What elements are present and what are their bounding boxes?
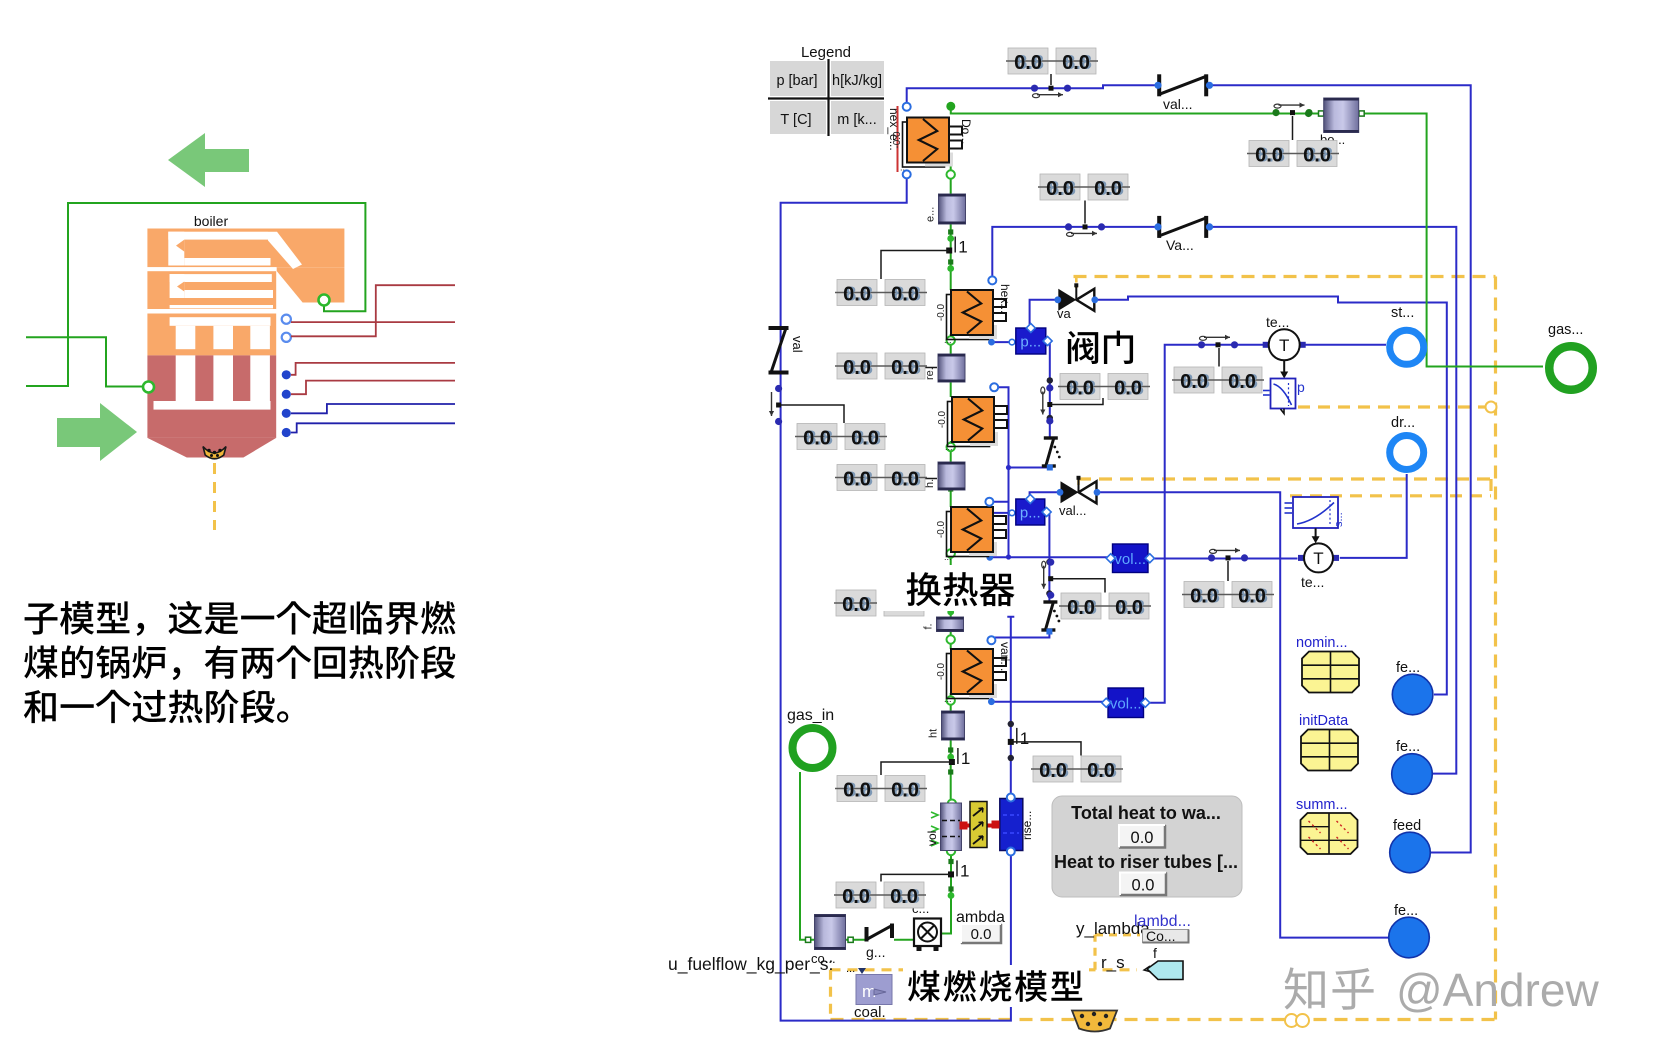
svg-text:T: T (1313, 549, 1323, 568)
svg-text:0.0: 0.0 (891, 780, 919, 802)
svg-text:g...: g... (866, 944, 885, 960)
svg-text:0.0: 0.0 (971, 926, 992, 943)
svg-text:0.0: 0.0 (1087, 760, 1115, 782)
label fe1 (1396, 660, 1420, 676)
display d1 (1006, 48, 1098, 74)
svg-text:s...: s... (1333, 512, 1345, 527)
label r_s (1101, 953, 1125, 972)
chinese description paragraph (24, 601, 456, 723)
heat transfer block yellow (970, 802, 987, 848)
label val1 (1163, 96, 1193, 112)
wire hex1 top to valve val1 to port feed (907, 85, 1471, 852)
svg-text:1: 1 (961, 749, 970, 768)
gain block k4 (1008, 728, 1029, 748)
svg-text:0.0: 0.0 (1228, 371, 1256, 393)
svg-text:Do...: Do... (959, 119, 973, 144)
wire hex3 top down to hex4 row (994, 387, 1008, 557)
port dr drain (1390, 436, 1424, 470)
switch te1 (1198, 335, 1238, 349)
svg-text:p...: p... (1020, 334, 1041, 351)
boiler icon (147, 229, 344, 458)
boat icon yellow (1072, 1011, 1117, 1032)
svg-text:1: 1 (960, 861, 969, 880)
svg-text:u_fuelflow_kg_per_s:: u_fuelflow_kg_per_s: (668, 954, 833, 975)
svg-text:st...: st... (1391, 305, 1414, 321)
svg-text:-0.0: -0.0 (937, 410, 948, 428)
bus node yellow double circle bottom (1285, 1014, 1309, 1027)
node blue boiler port 2 (282, 390, 291, 399)
wire red port 1 (291, 363, 455, 375)
wire p2 right down through valve to hex5 (993, 513, 1050, 641)
switch zz2 (1041, 559, 1054, 599)
node blue boiler port 4 (282, 428, 291, 437)
svg-text:0.0: 0.0 (1062, 52, 1090, 74)
label vari rotated (998, 642, 1012, 671)
wire p2 top to valve val4 to port fe4 (1030, 492, 1388, 937)
wire yellow dashed ash outlet (213, 463, 216, 530)
svg-text:Heat to riser tubes [...: Heat to riser tubes [... (1054, 852, 1238, 872)
valve va spray (1054, 283, 1098, 311)
vessel co (815, 915, 846, 950)
label coal combustion chinese (903, 965, 1089, 1007)
source block coal (846, 963, 892, 1021)
display left vol (835, 776, 927, 802)
wire riser top vertical (1007, 617, 1014, 795)
port hex1 bottom-left (903, 170, 911, 178)
svg-text:Total heat to wa...: Total heat to wa... (1071, 803, 1221, 823)
valve valve zz1 (1042, 438, 1061, 466)
svg-text:p: p (1297, 379, 1305, 395)
gain block k2 (949, 748, 970, 768)
label y_lambda (1076, 919, 1150, 938)
svg-text:0.0: 0.0 (1039, 760, 1067, 782)
label fe4 (1394, 903, 1418, 919)
heat exchanger hex4 (936, 507, 1006, 562)
svg-text:0.0: 0.0 (1238, 586, 1266, 608)
label Do rotated (959, 119, 973, 144)
heat coupling red (960, 821, 1000, 830)
display d2 bo (1247, 141, 1339, 167)
svg-text:m [k...: m [k... (837, 112, 876, 128)
gain block k3 (948, 860, 969, 880)
svg-text:rise...: rise... (1020, 811, 1034, 840)
parameter table summary (1301, 813, 1358, 854)
mixer combustion c (912, 901, 941, 951)
label f (1153, 945, 1157, 961)
node blue boiler port 1 (282, 370, 291, 379)
label lambda (956, 909, 1005, 926)
wire blue port 4 (291, 423, 455, 432)
switch d1 (1031, 85, 1071, 98)
port fe1 (1392, 674, 1433, 715)
svg-text:0.0: 0.0 (1114, 378, 1142, 400)
label hex rotated (998, 284, 1012, 313)
svg-text:e...: e... (925, 207, 937, 222)
label co (811, 951, 836, 966)
svg-text:0.0: 0.0 (1115, 597, 1143, 619)
svg-text:-0.0: -0.0 (936, 520, 947, 538)
display left2 (835, 353, 927, 379)
port fe2 (1392, 754, 1433, 795)
svg-text:va: va (1057, 306, 1072, 321)
svg-text:fe...: fe... (1396, 739, 1420, 755)
block vol2 (1102, 688, 1150, 718)
svg-text:...: ... (945, 442, 953, 452)
bus yellow dashed bottom edge (831, 1018, 1496, 1021)
svg-text:0.0: 0.0 (842, 594, 870, 616)
svg-text:0.0: 0.0 (1303, 145, 1331, 167)
wire hex1 bottom big left loop to riser (781, 177, 1011, 1021)
wire red port 2 (291, 381, 455, 395)
display left1 (835, 280, 927, 306)
svg-text:0.0: 0.0 (843, 284, 871, 306)
svg-text:vari...: vari... (998, 642, 1012, 671)
svg-text:0.0: 0.0 (851, 428, 879, 450)
svg-text:feed: feed (1393, 818, 1421, 834)
node green connectors on gas chain (806, 110, 1365, 943)
bus yellow dashed left stub (829, 970, 832, 1020)
display lambda value (961, 924, 1001, 943)
gain block k1 (946, 237, 967, 257)
port hex2 top-right (988, 276, 996, 284)
svg-text:coal.: coal. (854, 1004, 886, 1021)
vessel ht (928, 711, 965, 740)
svg-text:vol: vol (925, 831, 939, 846)
bus yellow tick to valve va (1075, 277, 1078, 289)
svg-text:f.: f. (923, 623, 935, 629)
valve valve zz2 (1041, 602, 1060, 630)
label gas (1548, 322, 1583, 338)
label summ (1296, 797, 1348, 813)
vessel f (923, 617, 964, 632)
label u_fuelflow (668, 954, 833, 975)
svg-text:te...: te... (1266, 314, 1289, 330)
svg-text:ht: ht (928, 729, 940, 738)
display te1 (1172, 367, 1264, 393)
svg-text:1: 1 (1020, 729, 1029, 748)
svg-text:0.0: 0.0 (1046, 178, 1074, 200)
svg-text:T [C]: T [C] (780, 112, 811, 128)
svg-text:0.0: 0.0 (803, 428, 831, 450)
svg-text:0.0: 0.0 (1094, 178, 1122, 200)
svg-text:dr...: dr... (1391, 415, 1415, 431)
svg-text:r_s: r_s (1101, 953, 1125, 972)
wire hex2 bottom to p1 (988, 334, 1016, 346)
bus yellow dashed lambda route (831, 935, 1141, 970)
riser block (1000, 794, 1034, 856)
svg-text:0.0: 0.0 (1014, 52, 1042, 74)
bus yellow tick to valve val4 (1077, 479, 1080, 486)
bus yellow dashed top edge (1074, 275, 1496, 278)
label bo (1320, 132, 1345, 147)
svg-text:gas_in: gas_in (787, 707, 834, 724)
svg-text:0.0: 0.0 (891, 357, 919, 379)
svg-text:0.0: 0.0 (1190, 586, 1218, 608)
svg-text:hex...: hex... (998, 284, 1012, 313)
svg-text:re.: re. (924, 367, 936, 380)
converter icon p1 (1263, 379, 1305, 414)
display left5 (834, 590, 926, 616)
svg-text:vol...: vol... (1114, 551, 1146, 568)
svg-text:val...: val... (1163, 96, 1193, 112)
watermark zhihu (1285, 964, 1600, 1016)
green arrow pointing left (168, 133, 249, 187)
bus yellow dashed steam signal (1290, 479, 1491, 496)
converter icon s2 (1285, 497, 1346, 528)
svg-text:0.0: 0.0 (1131, 829, 1154, 847)
wire green boiler top loop (26, 203, 365, 386)
svg-text:Va...: Va... (1166, 237, 1194, 253)
bus yellow dashed drum level (1078, 477, 1491, 480)
pointer lines displays (779, 74, 1293, 882)
label val4 (1059, 503, 1086, 518)
label Va2 (1166, 237, 1194, 253)
label te2 (1301, 574, 1324, 590)
vessel bo (1324, 98, 1359, 133)
svg-text:T: T (1279, 336, 1289, 355)
display left3 (795, 424, 887, 450)
svg-text:0.0: 0.0 (891, 469, 919, 491)
label te1 (1266, 314, 1289, 330)
svg-text:fe...: fe... (1394, 903, 1418, 919)
flag cyan (1144, 961, 1183, 980)
port feed (1390, 832, 1431, 873)
wire p1 top to valve va to port fe1 (1030, 297, 1447, 695)
svg-text:0.0: 0.0 (1132, 877, 1155, 895)
wire hex4 bottom row to vol1 to te2 to port dr (986, 474, 1406, 561)
svg-text:1: 1 (958, 238, 967, 257)
label hex_e rotated (887, 106, 901, 172)
svg-text:0.0: 0.0 (1255, 145, 1283, 167)
port gas_in (793, 728, 833, 768)
label st (1391, 305, 1414, 321)
display te2 (1182, 582, 1274, 608)
svg-text:p [bar]: p [bar] (776, 73, 817, 89)
vessel re (924, 354, 965, 382)
heat exchanger hex3 (937, 397, 1007, 452)
svg-text:...: ... (846, 963, 855, 975)
label lambd blue (1134, 913, 1191, 930)
temperature sensor te2 (1298, 543, 1339, 572)
svg-text:0.0: 0.0 (891, 284, 919, 306)
svg-text:boiler: boiler (194, 213, 229, 229)
svg-text:nomin...: nomin... (1296, 635, 1348, 651)
arrow te1 to converter (1280, 361, 1288, 379)
svg-text:0.0: 0.0 (843, 357, 871, 379)
display right va (1058, 374, 1150, 400)
svg-text:Co...: Co... (1146, 928, 1176, 944)
label va (1057, 306, 1072, 321)
wire hex5 bottom row to vol2 to te1 to port st (988, 345, 1386, 705)
bus yellow dashed right edge (1494, 277, 1497, 1020)
display left6 (834, 882, 926, 908)
label feed (1393, 818, 1421, 834)
green arrow pointing right (57, 403, 137, 461)
svg-text:te...: te... (1301, 574, 1324, 590)
switch bo (1272, 103, 1312, 117)
wire green hex1 to vessel bo to port gas (946, 102, 1543, 367)
svg-text:0.0: 0.0 (843, 780, 871, 802)
port flue gas sensor 2 (282, 333, 291, 342)
svg-text:fe...: fe... (1396, 660, 1420, 676)
label dr (1391, 415, 1415, 431)
bus node yellow circle (1486, 402, 1497, 413)
bus yellow dashed pressure signal (1298, 405, 1488, 408)
svg-text:val...: val... (1059, 503, 1086, 518)
svg-text:p...: p... (1020, 505, 1041, 522)
node blue zz pins (1046, 465, 1052, 635)
display left4 (835, 465, 927, 491)
label valve chinese (1062, 327, 1140, 369)
svg-text:initData: initData (1299, 713, 1349, 729)
svg-text:val: val (790, 336, 805, 353)
wire hex4 top stub (989, 502, 1008, 505)
panel total heat (1052, 796, 1242, 897)
svg-text:0.0: 0.0 (1180, 371, 1208, 393)
svg-text:summ...: summ... (1296, 797, 1348, 813)
temperature sensor te1 (1263, 329, 1306, 360)
svg-text:-0.0: -0.0 (936, 662, 947, 680)
block vol1 (1106, 544, 1154, 573)
wire green boiler left inlet (26, 337, 144, 386)
node blue val1 pins (1154, 82, 1213, 89)
port hex5 top-right (987, 636, 995, 644)
block p2 pressure (1016, 494, 1051, 525)
parameter table initData (1301, 730, 1358, 771)
svg-text:-0.0: -0.0 (892, 131, 903, 149)
port st steam (1390, 330, 1424, 364)
svg-text:0.0: 0.0 (1066, 378, 1094, 400)
vessel vol striped (925, 803, 962, 851)
svg-text:...: ... (944, 335, 952, 345)
display right zz2 (1059, 593, 1151, 619)
port flue gas sensor 1 (282, 315, 291, 324)
label heat exchanger chinese (877, 565, 1023, 611)
port hex4 top-right (985, 498, 993, 506)
arrow converter to te2 (1312, 528, 1320, 543)
switch te2 (1208, 548, 1248, 562)
ash trap icon (203, 447, 226, 459)
wire hex2 top to valve Va2 to port fe2 (992, 227, 1456, 774)
valve valve Va2 (1157, 216, 1208, 238)
label fe2 (1396, 739, 1420, 755)
node blue boiler port 3 (282, 409, 291, 418)
heat exchanger hex_evap (892, 118, 962, 173)
svg-text:...: ... (944, 552, 952, 562)
port hex3 top-right (990, 383, 998, 391)
label initData (1299, 713, 1349, 729)
switch d3 (1065, 223, 1105, 236)
port green boiler steam outlet (319, 295, 330, 306)
wire p1 right down through valve to hex3 line (1009, 344, 1050, 467)
heat exchanger hex2 (936, 290, 1006, 345)
wire green main gas chain (942, 164, 952, 934)
wire red sensor 2 (291, 285, 455, 336)
valve g fuel (865, 924, 895, 961)
vessel h (924, 462, 965, 490)
port hex1 top-left (903, 103, 911, 111)
legend table (768, 44, 884, 136)
label gas_in (787, 707, 834, 724)
display riser (1031, 756, 1123, 782)
wire hex4 to p2 (992, 510, 1016, 516)
port gas out (1549, 346, 1593, 390)
svg-text:Legend: Legend (801, 44, 851, 61)
wire red sensor 1 (291, 321, 455, 323)
svg-text:h.: h. (924, 479, 936, 488)
svg-text:@Andrew: @Andrew (1396, 964, 1599, 1016)
svg-text:0.0: 0.0 (890, 886, 918, 908)
svg-text:-0.0: -0.0 (936, 303, 947, 321)
heat exchanger hex5 (936, 649, 1006, 704)
display d3 (1038, 174, 1130, 200)
label nomin (1296, 635, 1348, 651)
svg-text:vol...: vol... (1110, 695, 1142, 712)
parameter table nominal (1302, 652, 1359, 693)
switch val left (769, 385, 782, 425)
valve val4 spray (1057, 476, 1101, 504)
node blue Va2 pins (1154, 223, 1213, 230)
svg-text:0.0: 0.0 (842, 886, 870, 908)
svg-text:0.0: 0.0 (843, 469, 871, 491)
switch zz1 (1040, 384, 1053, 424)
svg-text:0.0: 0.0 (1067, 597, 1095, 619)
block p1 pressure (1016, 323, 1052, 354)
boiler label (194, 213, 229, 229)
wire blue port 3 (291, 404, 455, 413)
svg-text:f: f (1153, 945, 1157, 961)
svg-text:...: ... (944, 694, 952, 704)
svg-text:h[kJ/kg]: h[kJ/kg] (832, 73, 882, 89)
port fe4 (1389, 917, 1430, 958)
valve val1 spray (1157, 74, 1208, 96)
block Co button (1143, 928, 1189, 944)
valve val vertical left (769, 326, 806, 375)
vessel e (925, 194, 966, 224)
wire green gas_in to mixer (800, 772, 914, 940)
node blue junctions on risers (1006, 377, 1053, 761)
svg-text:gas...: gas... (1548, 322, 1583, 338)
port green boiler water inlet (143, 382, 154, 393)
